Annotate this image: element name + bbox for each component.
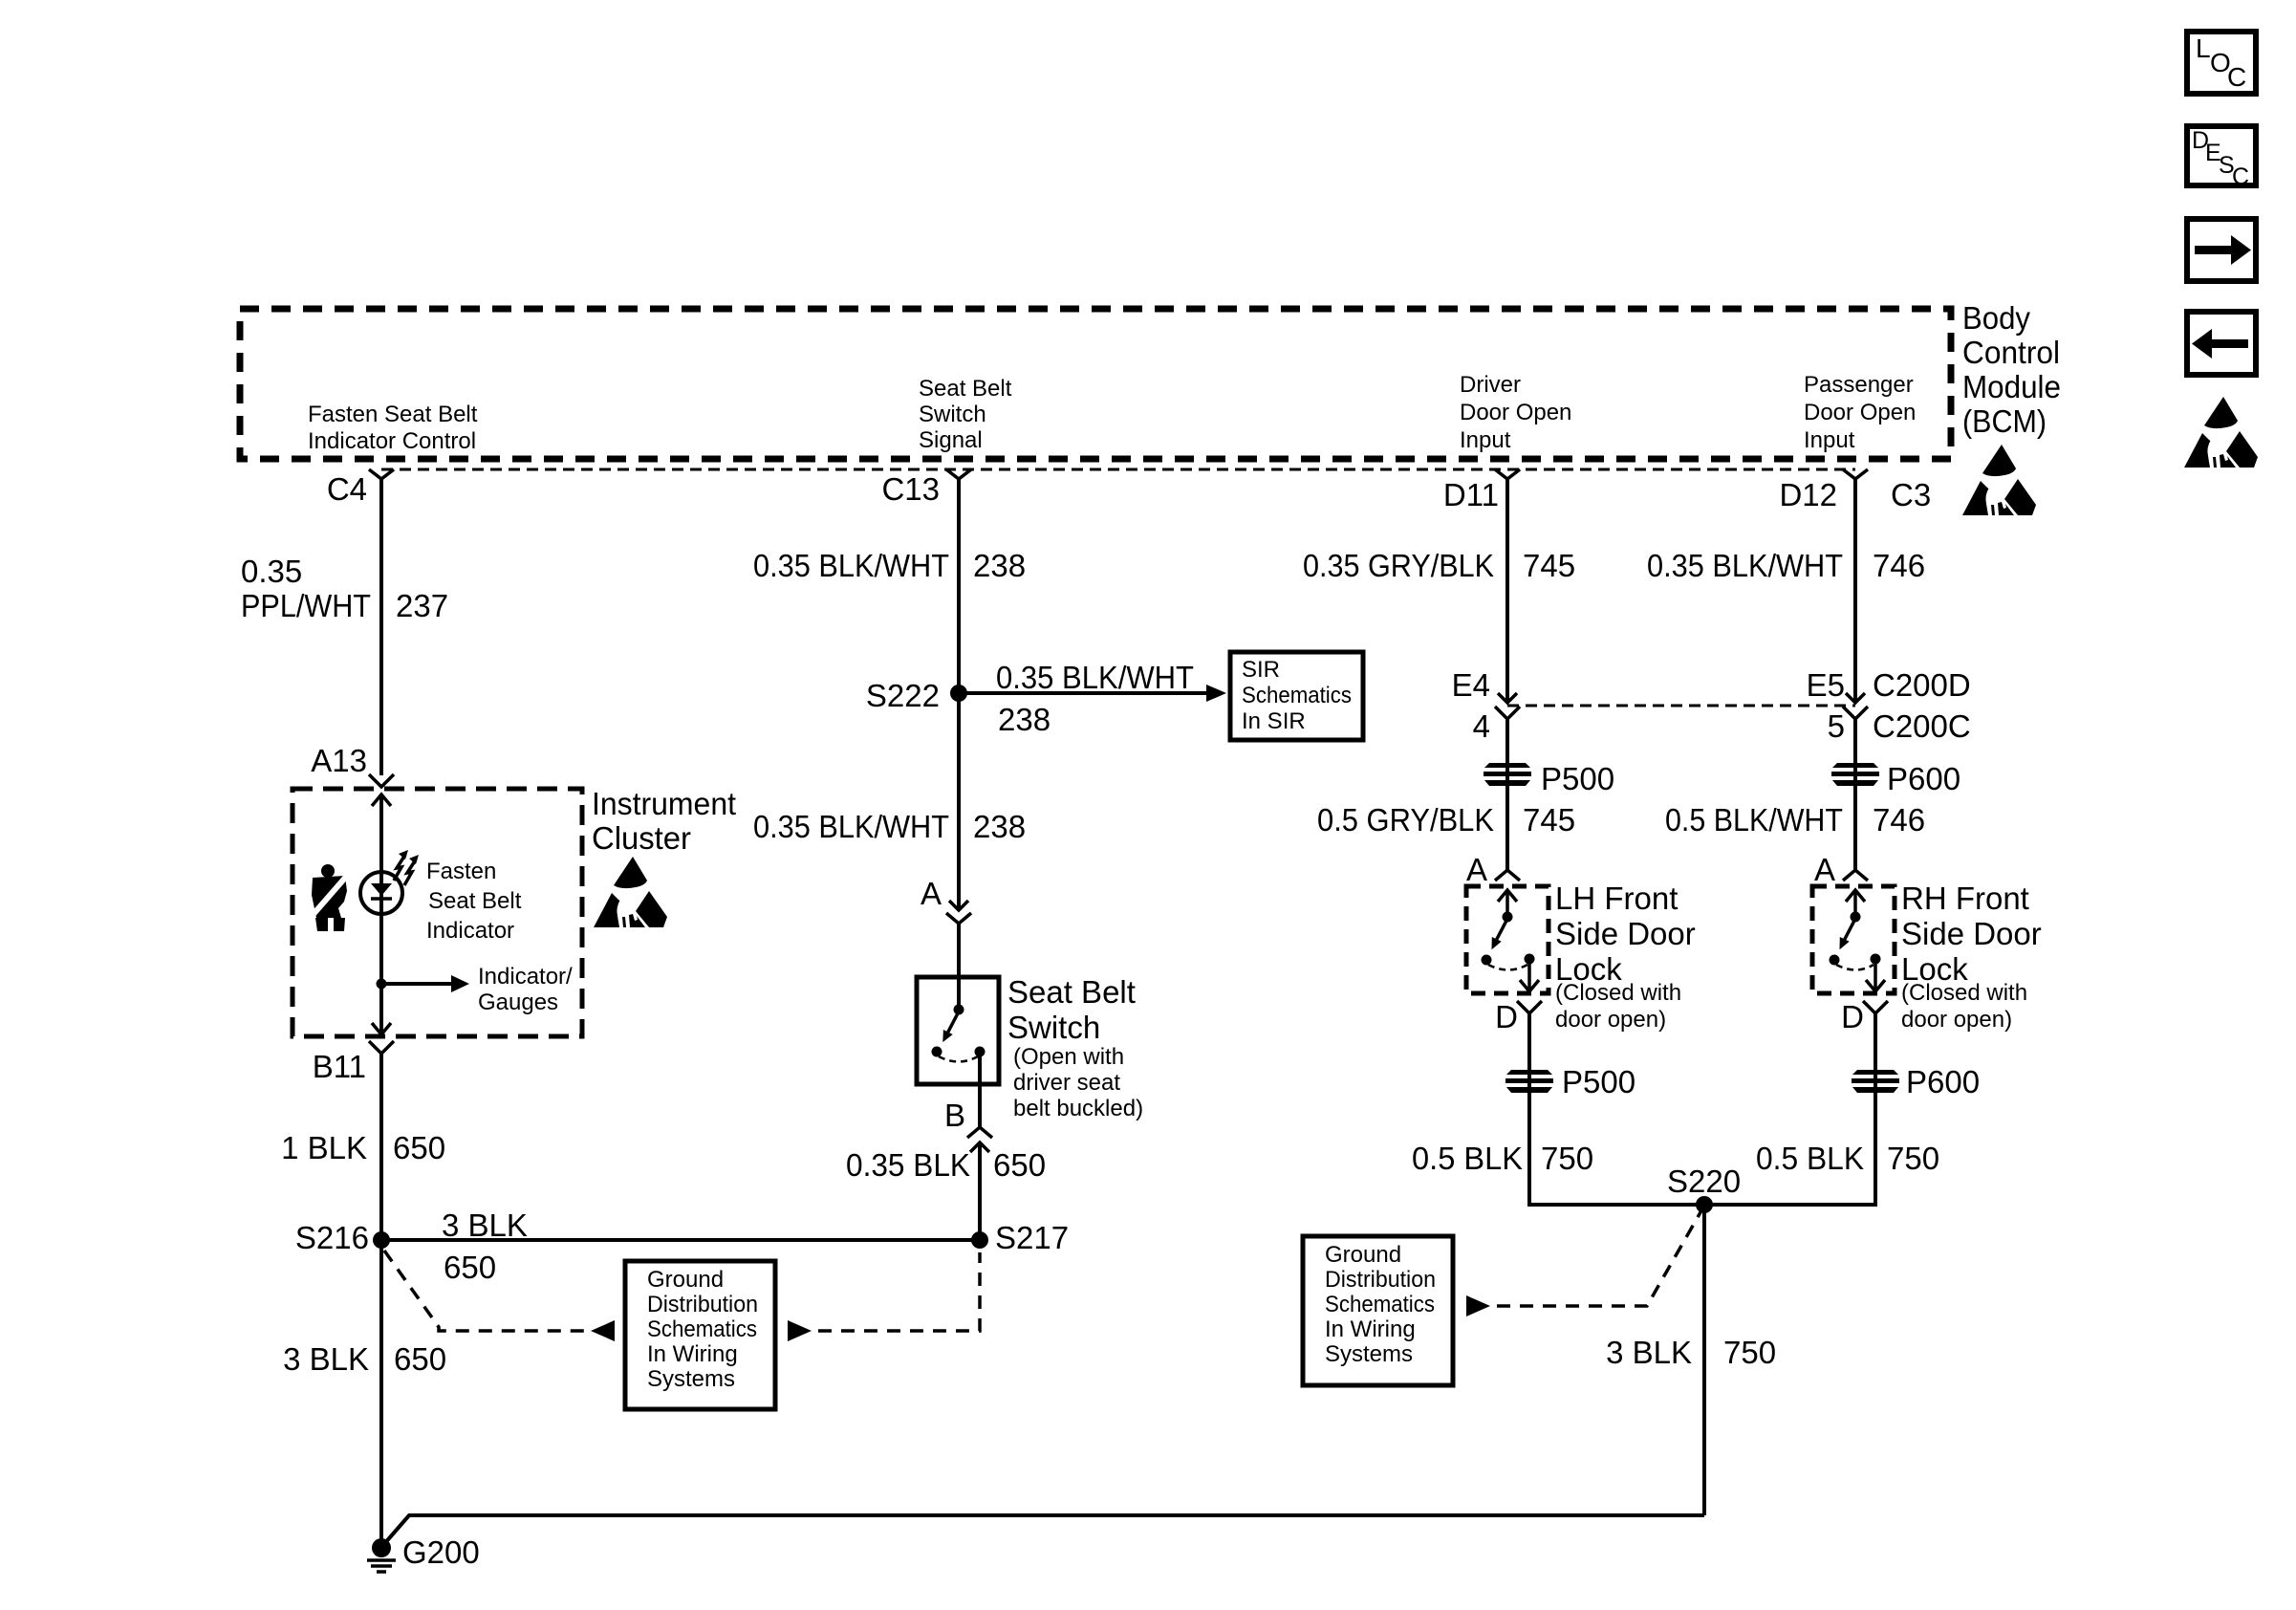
svg-text:Side Door: Side Door — [1901, 916, 2042, 951]
svg-text:P500: P500 — [1541, 761, 1614, 796]
ground distribution reference box right — [1303, 1236, 1453, 1385]
SIR schematics reference box — [1230, 652, 1363, 740]
svg-text:0.35: 0.35 — [241, 554, 302, 589]
wire D to P500 lower to S220 — [1529, 1013, 1704, 1205]
grommet P500 lower — [1505, 1070, 1553, 1093]
label Fasten Seat Belt Indicator — [426, 859, 522, 944]
junction dot indicator/gauges tap — [377, 979, 387, 990]
svg-text:Distribution: Distribution — [1325, 1267, 1436, 1293]
BCM connector face dashed line — [381, 468, 1855, 471]
wire 4 to P500 — [1505, 719, 1509, 871]
left-arrow legend box — [2187, 312, 2256, 375]
svg-text:0.35 GRY/BLK: 0.35 GRY/BLK — [1303, 548, 1494, 583]
svg-text:Ground: Ground — [647, 1267, 724, 1293]
instrument cluster dashed box — [292, 789, 582, 1036]
svg-text:SIR: SIR — [1242, 657, 1280, 683]
ground distribution reference box left — [625, 1261, 775, 1409]
svg-text:driver seat: driver seat — [1013, 1070, 1120, 1096]
grommet P600 upper — [1831, 763, 1879, 786]
svg-text:746: 746 — [1873, 802, 1925, 838]
ground G200 — [367, 1538, 396, 1572]
pin C4 chevron — [369, 469, 394, 479]
svg-text:G200: G200 — [402, 1534, 480, 1570]
svg-text:Systems: Systems — [1325, 1341, 1413, 1367]
wire S222 to SIR reference — [959, 685, 1226, 702]
wire label 0.35 GRY/BLK 745 — [1303, 548, 1575, 583]
LH door lock switch interior — [1482, 890, 1540, 991]
svg-text:0.5 BLK: 0.5 BLK — [1412, 1141, 1523, 1176]
svg-text:A: A — [1814, 852, 1835, 887]
svg-text:Indicator Control: Indicator Control — [308, 428, 476, 454]
svg-text:P600: P600 — [1887, 761, 1960, 796]
svg-text:C200C: C200C — [1873, 708, 1971, 744]
ESD symbol beside BCM — [1962, 445, 2036, 515]
svg-text:Cluster: Cluster — [592, 820, 691, 856]
svg-text:0.5 BLK: 0.5 BLK — [1756, 1141, 1864, 1176]
svg-text:C3: C3 — [1891, 477, 1931, 512]
svg-text:A: A — [921, 876, 942, 911]
wire label 0.5 BLK 750 passenger — [1756, 1141, 1939, 1176]
svg-text:Passenger: Passenger — [1804, 372, 1914, 398]
svg-text:650: 650 — [393, 1130, 445, 1165]
svg-text:S222: S222 — [866, 678, 940, 713]
wire label 1 BLK 650 — [281, 1130, 445, 1165]
fasten seat belt telltale icon — [312, 864, 347, 931]
svg-text:237: 237 — [396, 588, 448, 623]
svg-text:RH Front: RH Front — [1901, 881, 2029, 916]
svg-text:745: 745 — [1523, 548, 1575, 583]
svg-text:C4: C4 — [327, 471, 367, 507]
svg-text:In SIR: In SIR — [1242, 708, 1306, 734]
svg-text:Seat Belt: Seat Belt — [428, 888, 522, 914]
svg-text:0.35 BLK: 0.35 BLK — [846, 1147, 970, 1183]
RH front side door lock dashed box — [1812, 886, 1895, 993]
svg-text:Seat Belt: Seat Belt — [1007, 974, 1136, 1010]
wire label 0.35 BLK/WHT 746 — [1647, 548, 1925, 583]
LH front side door lock dashed box — [1466, 886, 1549, 993]
svg-text:5: 5 — [1828, 708, 1845, 744]
splice S217 — [971, 1231, 988, 1249]
svg-text:Schematics: Schematics — [1325, 1292, 1435, 1317]
svg-text:In Wiring: In Wiring — [647, 1341, 738, 1367]
wire inside instrument cluster — [379, 794, 383, 1034]
LED emission arrows — [394, 850, 419, 885]
svg-text:Side Door: Side Door — [1555, 916, 1696, 951]
connector C200 dashed line — [1507, 705, 1855, 707]
label RH Front Side Door Lock — [1901, 881, 2042, 1033]
pin arrow into cluster top — [372, 794, 391, 806]
pin C13 chevron — [946, 469, 971, 479]
svg-text:0.35 BLK/WHT: 0.35 BLK/WHT — [996, 660, 1194, 695]
svg-text:Fasten Seat Belt: Fasten Seat Belt — [308, 402, 478, 427]
svg-text:D: D — [1841, 999, 1864, 1034]
svg-text:Door Open: Door Open — [1460, 400, 1571, 425]
label Seat Belt Switch — [1007, 974, 1143, 1121]
svg-text:S216: S216 — [295, 1220, 369, 1255]
svg-text:Indicator: Indicator — [426, 918, 514, 944]
svg-text:4: 4 — [1473, 708, 1490, 744]
arrow to Indicator/Gauges — [381, 975, 469, 992]
svg-text:PPL/WHT: PPL/WHT — [241, 588, 371, 623]
connector E5 arrow and chevron — [1843, 693, 1868, 719]
label Instrument Cluster — [592, 786, 736, 856]
svg-text:650: 650 — [394, 1341, 446, 1377]
svg-text:650: 650 — [444, 1250, 496, 1285]
svg-text:Input: Input — [1460, 427, 1511, 453]
svg-text:P600: P600 — [1906, 1064, 1980, 1099]
ESD symbol instrument cluster — [594, 857, 667, 927]
inline connector B chevron and arrow — [967, 1127, 992, 1152]
svg-text:Gauges: Gauges — [478, 990, 558, 1015]
wire label 0.35 PPL/WHT 237 — [241, 554, 448, 623]
wire S220 down — [1702, 1205, 1706, 1515]
svg-text:E5: E5 — [1807, 667, 1845, 703]
svg-text:B: B — [944, 1098, 965, 1133]
wire B to S217 — [978, 1142, 982, 1240]
svg-text:3 BLK: 3 BLK — [283, 1341, 369, 1377]
wire label 0.35 BLK/WHT 238 lower — [753, 809, 1026, 844]
svg-text:3 BLK: 3 BLK — [1606, 1335, 1692, 1370]
wire label 3 BLK 650 horizontal — [442, 1207, 528, 1285]
svg-text:belt buckled): belt buckled) — [1013, 1096, 1143, 1121]
wire label 3 BLK 650 lower — [283, 1341, 446, 1377]
wire C13 to seat belt switch — [957, 478, 961, 910]
grommet P600 lower — [1852, 1070, 1899, 1093]
svg-text:650: 650 — [993, 1147, 1046, 1183]
svg-text:C: C — [2227, 62, 2246, 92]
dashed reference box to S217 — [788, 1252, 980, 1341]
svg-text:Seat Belt: Seat Belt — [919, 376, 1012, 402]
svg-text:Schematics: Schematics — [1242, 683, 1352, 708]
wire D to P600 lower to S220 — [1704, 1013, 1875, 1205]
svg-text:Ground: Ground — [1325, 1242, 1401, 1268]
BCM dashed box — [240, 309, 1951, 459]
svg-text:(Closed with: (Closed with — [1555, 980, 1681, 1006]
wire label 3 BLK 750 — [1606, 1335, 1776, 1370]
wire 5 to P600 — [1853, 719, 1857, 871]
svg-text:Module: Module — [1962, 369, 2061, 404]
svg-text:B11: B11 — [313, 1049, 366, 1084]
svg-text:0.35 BLK/WHT: 0.35 BLK/WHT — [753, 809, 949, 844]
svg-text:238: 238 — [998, 702, 1051, 737]
label LH Front Side Door Lock — [1555, 881, 1696, 1033]
svg-text:E4: E4 — [1452, 667, 1490, 703]
label Indicator/Gauges — [478, 964, 573, 1015]
splice S216 — [373, 1231, 390, 1249]
pin arrow out cluster bottom — [372, 1023, 391, 1034]
pin D12/C3 chevron — [1843, 469, 1868, 479]
svg-text:Driver: Driver — [1460, 372, 1521, 398]
svg-text:Switch: Switch — [1007, 1010, 1100, 1045]
svg-text:In Wiring: In Wiring — [1325, 1316, 1416, 1342]
svg-text:Instrument: Instrument — [592, 786, 736, 821]
dashed reference box to S220 — [1466, 1212, 1700, 1316]
svg-text:750: 750 — [1723, 1335, 1776, 1370]
wire label 0.5 BLK 750 driver — [1412, 1141, 1593, 1176]
label Seat Belt Switch Signal — [919, 376, 1012, 453]
seat belt switch contacts and blade — [932, 1005, 986, 1062]
wire label 0.35 BLK/WHT 238 upper — [753, 548, 1026, 583]
svg-text:750: 750 — [1887, 1141, 1939, 1176]
svg-text:A: A — [1466, 852, 1487, 887]
svg-text:238: 238 — [973, 548, 1026, 583]
svg-text:(Open with: (Open with — [1013, 1044, 1124, 1070]
splice S222 — [950, 685, 967, 702]
svg-text:Signal: Signal — [919, 427, 983, 453]
svg-text:Control: Control — [1962, 335, 2060, 370]
wire label 0.5 GRY/BLK 745 — [1317, 802, 1575, 838]
pin A13 chevron — [369, 774, 394, 787]
svg-text:0.5 GRY/BLK: 0.5 GRY/BLK — [1317, 802, 1494, 838]
svg-text:Input: Input — [1804, 427, 1855, 453]
svg-text:745: 745 — [1523, 802, 1575, 838]
wire A to seat belt switch box — [957, 924, 961, 1010]
LED circle Fasten Seat Belt Indicator — [360, 872, 402, 914]
svg-text:P500: P500 — [1562, 1064, 1635, 1099]
svg-text:L: L — [2196, 33, 2211, 63]
svg-text:door open): door open) — [1901, 1007, 2012, 1033]
wire bottom run to G200 — [383, 1515, 1704, 1545]
label Fasten Seat Belt Indicator Control — [308, 402, 478, 454]
svg-text:Distribution: Distribution — [647, 1292, 758, 1317]
svg-text:0.35 BLK/WHT: 0.35 BLK/WHT — [753, 548, 949, 583]
seat belt switch box — [917, 977, 999, 1084]
svg-text:D11: D11 — [1443, 477, 1499, 512]
wire C3 to C200 — [1853, 478, 1857, 703]
svg-text:D: D — [1495, 999, 1518, 1034]
svg-text:C: C — [2232, 163, 2249, 190]
wire label 0.35 BLK 650 — [846, 1147, 1046, 1183]
svg-text:0.35 BLK/WHT: 0.35 BLK/WHT — [1647, 548, 1843, 583]
svg-text:1 BLK: 1 BLK — [281, 1130, 367, 1165]
splice S220 — [1696, 1196, 1713, 1213]
svg-text:750: 750 — [1541, 1141, 1593, 1176]
label Body Control Module (BCM) — [1962, 300, 2061, 439]
dashed reference S216 to box — [384, 1251, 615, 1341]
svg-text:3 BLK: 3 BLK — [442, 1207, 528, 1243]
svg-text:Fasten: Fasten — [426, 859, 496, 884]
wire B11 to S216 to G200 — [379, 1054, 383, 1548]
svg-text:746: 746 — [1873, 548, 1925, 583]
pin D11 chevron — [1495, 469, 1520, 479]
svg-text:A13: A13 — [311, 743, 367, 778]
wire label 0.5 BLK/WHT 746 — [1665, 802, 1925, 838]
DESC legend box — [2187, 126, 2256, 190]
connector A chevron LH — [1495, 870, 1520, 881]
svg-text:D12: D12 — [1779, 477, 1837, 512]
svg-text:Switch: Switch — [919, 402, 986, 427]
svg-text:(Closed with: (Closed with — [1901, 980, 2027, 1006]
connector A chevron RH — [1843, 870, 1868, 881]
connector D chevron RH — [1863, 1001, 1888, 1013]
connector D chevron LH — [1517, 1001, 1542, 1013]
svg-text:S217: S217 — [995, 1220, 1069, 1255]
right-arrow legend box — [2187, 219, 2256, 281]
svg-text:door open): door open) — [1555, 1007, 1666, 1033]
LOC legend box — [2187, 32, 2256, 94]
svg-text:C200D: C200D — [1873, 667, 1971, 703]
svg-text:238: 238 — [973, 809, 1026, 844]
svg-text:C13: C13 — [881, 471, 940, 507]
svg-text:Indicator/: Indicator/ — [478, 964, 573, 990]
svg-text:LH Front: LH Front — [1555, 881, 1678, 916]
wire D11 to C200 — [1505, 478, 1509, 703]
svg-text:0.5 BLK/WHT: 0.5 BLK/WHT — [1665, 802, 1843, 838]
svg-text:(BCM): (BCM) — [1962, 403, 2047, 439]
svg-text:Systems: Systems — [647, 1366, 735, 1392]
RH door lock switch interior — [1830, 890, 1886, 991]
wire seat belt switch B terminal — [978, 1052, 982, 1127]
label Driver Door Open Input — [1460, 372, 1571, 453]
inline connector A arrow and chevron — [946, 901, 971, 924]
ESD symbol sidebar — [2184, 397, 2258, 468]
wire C4 to instrument cluster — [379, 478, 383, 775]
pin B11 chevron — [369, 1041, 394, 1054]
svg-text:S220: S220 — [1667, 1164, 1741, 1199]
grommet P500 upper — [1484, 763, 1531, 786]
connector E4 arrow and chevron — [1495, 693, 1520, 719]
svg-text:Door Open: Door Open — [1804, 400, 1916, 425]
svg-text:Body: Body — [1962, 300, 2030, 336]
label Passenger Door Open Input — [1804, 372, 1916, 453]
svg-text:Schematics: Schematics — [647, 1316, 757, 1342]
wire S216 to S217 — [381, 1238, 980, 1242]
